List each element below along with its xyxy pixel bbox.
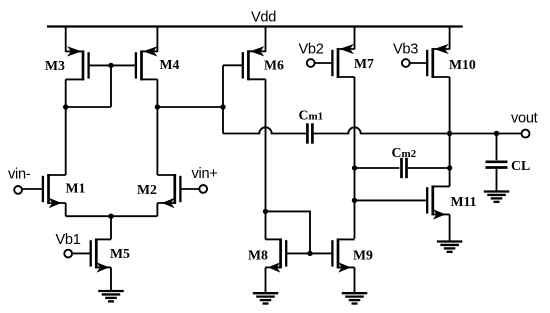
wire Cm2 right bbox=[407, 167, 450, 169]
svg-text:M9: M9 bbox=[353, 248, 373, 263]
wire M11 source to ground bbox=[449, 214, 451, 241]
terminal Vb3 bbox=[402, 59, 410, 67]
capacitor Cm1 bbox=[307, 123, 312, 143]
node M11 gate / second stage output bbox=[352, 198, 357, 203]
node Cm2 right bbox=[447, 165, 452, 170]
svg-text:M3: M3 bbox=[45, 58, 65, 73]
wire tail node bbox=[66, 215, 158, 217]
wire M6 gate down to Cm1 wire bbox=[222, 65, 224, 133]
wire M1 drain vertical bbox=[65, 107, 67, 175]
node M4 drain / M2 drain bbox=[155, 104, 160, 109]
svg-text:Vb2: Vb2 bbox=[299, 42, 324, 58]
wire M4 drain down bbox=[156, 79, 158, 107]
node first stage output bbox=[220, 104, 225, 109]
transistor M3 (PMOS) bbox=[66, 47, 111, 80]
wire Vdd to M4 source bbox=[156, 27, 158, 53]
svg-text:M10: M10 bbox=[449, 57, 476, 72]
wire M8 drain to mirror gates bbox=[266, 211, 311, 253]
node tail bbox=[108, 214, 113, 219]
svg-text:M2: M2 bbox=[137, 182, 157, 197]
capacitor CL bbox=[486, 162, 508, 168]
wire Vdd to M6 source bbox=[265, 27, 267, 53]
transistor M6 (PMOS) bbox=[223, 47, 266, 80]
node M3/M4 gates bbox=[108, 63, 113, 68]
terminal vin+ bbox=[199, 185, 207, 193]
wire M7 drain to M9 drain bbox=[354, 77, 356, 239]
wire M3 drain down bbox=[65, 79, 67, 107]
terminal Vb1 bbox=[64, 250, 72, 258]
svg-text:vin-: vin- bbox=[8, 167, 31, 183]
wire M10 drain to vout node bbox=[449, 77, 451, 134]
wire M8 source to ground bbox=[265, 267, 267, 293]
transistor M11 (NMOS) bbox=[355, 185, 450, 218]
transistor M2 (NMOS) bbox=[157, 174, 199, 207]
node M8/M9 gates bbox=[307, 251, 312, 256]
node M8 drain tap bbox=[263, 209, 268, 214]
wire vout node down to M11 drain bbox=[449, 134, 451, 187]
wire vout to CL bbox=[496, 134, 498, 161]
svg-text:M1: M1 bbox=[66, 181, 86, 196]
transistor M8 (NMOS) bbox=[266, 238, 311, 271]
node M3 drain / M1 drain bbox=[63, 104, 68, 109]
terminal Vb2 bbox=[307, 59, 315, 67]
svg-text:Vb3: Vb3 bbox=[393, 42, 418, 58]
wire Vdd to M7 source bbox=[354, 27, 356, 50]
capacitor Cm2 bbox=[402, 158, 407, 178]
svg-text:CL: CL bbox=[511, 158, 530, 173]
wire Cm2 left bbox=[355, 167, 400, 169]
terminal vin- bbox=[14, 186, 22, 194]
terminal vout bbox=[522, 130, 530, 138]
wire tail to M5 drain bbox=[110, 216, 112, 239]
svg-text:M6: M6 bbox=[264, 58, 284, 73]
wire Vdd to M10 source bbox=[449, 27, 451, 50]
wire M9 source to ground bbox=[354, 267, 356, 293]
svg-text:Vb1: Vb1 bbox=[56, 232, 81, 248]
wire M3 drain to gate junction bbox=[66, 106, 111, 108]
ground (under M5) bbox=[98, 291, 124, 301]
wire Cm1 right segment to vout with hop over M7 drain bbox=[313, 127, 522, 133]
wire M2 source down bbox=[156, 203, 158, 216]
wire Cm1 left segment (first-stage output to Cm1) with hop over M6 drain bbox=[223, 127, 307, 133]
svg-text:M7: M7 bbox=[354, 56, 374, 71]
svg-text:vout: vout bbox=[511, 111, 538, 127]
transistor M4 (PMOS) bbox=[111, 47, 157, 80]
svg-text:Cm1: Cm1 bbox=[299, 108, 324, 123]
ground (under M9) bbox=[342, 293, 368, 303]
transistor M5 (NMOS) bbox=[72, 238, 111, 271]
wire M4 drain to M6 gate node bbox=[157, 106, 223, 108]
svg-text:M4: M4 bbox=[160, 57, 180, 72]
transistor M10 (PMOS) bbox=[410, 45, 450, 78]
transistor M9 (NMOS) bbox=[310, 238, 355, 271]
svg-text:vin+: vin+ bbox=[192, 166, 218, 182]
Vdd power rail bbox=[47, 25, 463, 27]
wire M5 source to ground bbox=[110, 267, 112, 291]
wire Vdd to M3 source bbox=[65, 27, 67, 53]
wire M1 source down bbox=[65, 203, 67, 216]
svg-text:M11: M11 bbox=[451, 194, 477, 209]
svg-text:M8: M8 bbox=[248, 248, 268, 263]
ground (under M8) bbox=[253, 293, 279, 303]
wire M2 drain vertical bbox=[156, 107, 158, 175]
ground (under M11) bbox=[437, 242, 463, 252]
wire M3-M4 gate junction down to M3 drain wire bbox=[110, 65, 112, 107]
transistor M7 (PMOS) bbox=[315, 45, 355, 78]
ground (under CL) bbox=[484, 192, 510, 202]
svg-text:M5: M5 bbox=[110, 246, 130, 261]
node M10/M11 drains on vout wire bbox=[447, 131, 452, 136]
transistor M1 (NMOS) bbox=[22, 174, 66, 207]
node Cm2 left bbox=[352, 165, 357, 170]
wire M6 drain to M8 drain bbox=[265, 79, 267, 239]
svg-text:Vdd: Vdd bbox=[251, 10, 276, 26]
node CL junction bbox=[494, 131, 499, 136]
wire CL to ground bbox=[496, 169, 498, 192]
svg-text:Cm2: Cm2 bbox=[392, 145, 417, 160]
